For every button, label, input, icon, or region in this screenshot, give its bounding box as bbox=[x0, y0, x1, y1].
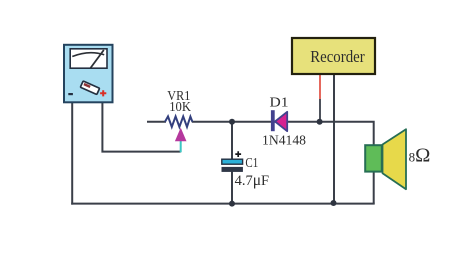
capacitor C1 top plate bbox=[222, 159, 243, 164]
wire: speaker bottom to bottom rail right corner bbox=[373, 171, 375, 204]
wire: cyan wiper lead bbox=[180, 139, 182, 152]
capacitor plus sign bbox=[235, 151, 241, 157]
meter M1 body bbox=[64, 45, 113, 103]
wire: bottom rail bbox=[71, 203, 375, 205]
wire: recorder red lead bbox=[319, 74, 321, 99]
capacitor C1 bottom plate bbox=[222, 167, 243, 171]
diode D1 triangle bbox=[275, 112, 287, 131]
svg-text:D1: D1 bbox=[270, 95, 289, 110]
meter scale arc bbox=[72, 53, 104, 57]
svg-text:4.7μF: 4.7μF bbox=[235, 172, 270, 189]
diode D1 cathode bar bbox=[271, 110, 275, 131]
wire: capacitor branch upper bbox=[231, 122, 233, 160]
meter plus terminal label bbox=[100, 90, 106, 96]
wire: top rail left stub (pot left terminal) bbox=[147, 121, 166, 123]
junction node at C1 bottom bbox=[229, 201, 235, 207]
meter knob mark bbox=[83, 83, 90, 88]
wire: recorder right lead down to bottom rail bbox=[333, 74, 335, 203]
svg-text:C1: C1 bbox=[245, 155, 258, 170]
speaker cone bbox=[383, 129, 407, 189]
junction node at recorder red lead bbox=[317, 119, 323, 125]
svg-text:8Ω: 8Ω bbox=[409, 144, 431, 166]
meter needle bbox=[91, 50, 104, 68]
recorder box U1 bbox=[292, 38, 375, 74]
wire: top rail from VR1 to speaker corner bbox=[192, 122, 374, 146]
svg-text:1N4148: 1N4148 bbox=[262, 133, 306, 148]
svg-text:10K: 10K bbox=[169, 99, 191, 114]
potentiometer wiper arrow bbox=[175, 128, 187, 142]
junction node at recorder right lead bottom bbox=[331, 200, 337, 206]
junction node at VR1/C1 tap bbox=[229, 119, 235, 125]
svg-text:Recorder: Recorder bbox=[310, 47, 365, 66]
wire: meter right leg down and right to wiper bbox=[102, 103, 180, 152]
wire: meter left leg down the left side bbox=[71, 103, 73, 205]
meter knob bbox=[80, 81, 99, 95]
speaker LS1 magnet body bbox=[365, 145, 382, 171]
resistor VR1 zigzag bbox=[165, 116, 192, 127]
wire: recorder red lead lower dark part bbox=[319, 99, 321, 122]
meter dial window bbox=[70, 49, 107, 68]
meter minus terminal label bbox=[68, 93, 73, 95]
wire: capacitor branch lower bbox=[231, 170, 233, 204]
